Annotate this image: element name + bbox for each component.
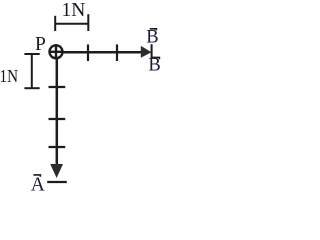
svg-text:A: A xyxy=(31,175,45,195)
svg-text:1N: 1N xyxy=(62,0,86,21)
dimension bracket 1N (top) xyxy=(55,14,88,31)
point P circle xyxy=(49,44,64,59)
underline bar below A arrowhead (cropped label overbar) xyxy=(47,181,67,183)
tick 3 on vector B (at arrow tip) xyxy=(151,44,153,58)
label A-bar left of arrow tip xyxy=(31,175,45,196)
tick 1 on vector A xyxy=(49,86,66,88)
vector A wire (vertical shaft) xyxy=(56,58,59,165)
svg-text:1N: 1N xyxy=(0,66,18,86)
tick 2 on vector B xyxy=(116,44,118,61)
tick 2 on vector A xyxy=(49,118,66,120)
svg-text:P: P xyxy=(35,34,46,55)
dimension bracket 1N (left) xyxy=(24,54,39,88)
label B-bar below arrow tip xyxy=(148,56,160,76)
vector B wire (horizontal shaft) xyxy=(63,51,142,54)
tick 3 on vector A xyxy=(49,146,66,148)
vector B arrowhead xyxy=(141,46,152,58)
vector A arrowhead xyxy=(50,164,63,178)
label B-bar above arrow tip xyxy=(146,28,158,48)
svg-text:B: B xyxy=(146,28,158,48)
tick 1 on vector B xyxy=(87,44,89,61)
